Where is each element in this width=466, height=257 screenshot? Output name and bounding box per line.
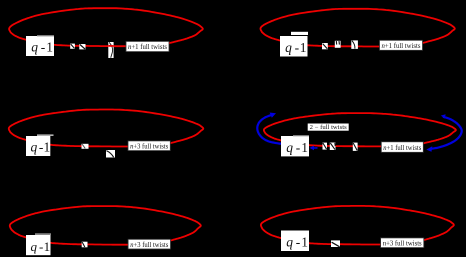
svg-text:q: q	[31, 140, 38, 155]
svg-text:1: 1	[44, 239, 51, 254]
crossing box panel 6	[331, 240, 340, 247]
svg-text:-: -	[296, 234, 301, 249]
svg-text:q: q	[285, 40, 292, 55]
overline bar panel 3	[37, 135, 54, 136]
svg-text:n+1 full twists: n+1 full twists	[382, 41, 421, 50]
blue stub with arrowhead right of q-1 box panel 4	[309, 146, 317, 151]
box q-1 panel 1	[26, 36, 54, 56]
svg-text:-: -	[41, 40, 46, 55]
svg-text:1: 1	[44, 140, 51, 155]
svg-text:n+3 full twists: n+3 full twists	[130, 141, 168, 150]
under-strand box panel 3	[106, 150, 115, 158]
overline white bar panel 2	[291, 32, 308, 35]
crossing box A panel 2	[322, 43, 328, 49]
svg-text:1: 1	[301, 234, 308, 249]
small label box 2-full twists panel 4	[308, 124, 349, 132]
overline bar panel 5	[35, 233, 51, 234]
red curve panel 3	[9, 110, 204, 147]
blue arrowhead top-left panel 4	[270, 113, 276, 118]
crossing box 2 panel 1	[79, 44, 85, 49]
crossing box 1 panel 1	[70, 44, 75, 49]
crossing box C panel 2	[351, 40, 358, 49]
box q-1 panel 6	[281, 231, 309, 252]
red curve panel 4	[264, 113, 456, 146]
svg-text:-: -	[296, 140, 301, 155]
svg-text:n+3 full twists: n+3 full twists	[130, 240, 168, 249]
label box panel 3	[128, 141, 170, 151]
red curve panel 5	[10, 206, 201, 245]
svg-text:q: q	[286, 140, 293, 155]
box q-1 panel 5	[26, 235, 51, 255]
svg-text:n+3 full twists: n+3 full twists	[383, 238, 422, 247]
crossing box A panel 4	[323, 143, 328, 150]
blue arrowhead bottom-right panel 4	[426, 146, 432, 152]
twist region box panel 1	[108, 42, 113, 58]
red curve panel 1	[9, 8, 203, 46]
svg-text:q: q	[31, 239, 38, 254]
box q-1 panel 4	[281, 136, 309, 156]
label box panel 1	[126, 41, 169, 51]
label box panel 4	[381, 142, 423, 153]
label box panel 5	[128, 239, 170, 249]
box q-1 panel 2	[280, 36, 308, 57]
label box panel 2	[380, 40, 423, 50]
svg-text:1: 1	[301, 140, 308, 155]
svg-text:1: 1	[300, 40, 307, 55]
svg-text:n+1 full twists: n+1 full twists	[383, 143, 421, 152]
crossing box B panel 4	[330, 143, 336, 151]
red curve panel 2	[261, 9, 455, 47]
blue tick top-right panel 4	[441, 114, 446, 118]
crossing box panel 3	[82, 144, 89, 149]
svg-text:2 − full twists: 2 − full twists	[310, 124, 348, 131]
box q-1 panel 3	[26, 136, 50, 156]
crossing box B panel 2	[335, 41, 341, 48]
red curve panel 6	[261, 206, 454, 245]
blue curve right arc panel 4	[430, 117, 462, 149]
svg-text:q: q	[286, 234, 293, 249]
crossing box panel 5	[82, 242, 88, 248]
crossing box C panel 4	[353, 143, 358, 151]
svg-text:1: 1	[46, 40, 53, 55]
blue curve left arc panel 4	[257, 115, 281, 144]
svg-text:n+1 full twists: n+1 full twists	[128, 42, 167, 51]
label box panel 6	[381, 238, 424, 248]
svg-text:q: q	[31, 40, 38, 55]
overline bar panel 4	[293, 135, 309, 136]
overline bar panel 1	[37, 35, 54, 36]
